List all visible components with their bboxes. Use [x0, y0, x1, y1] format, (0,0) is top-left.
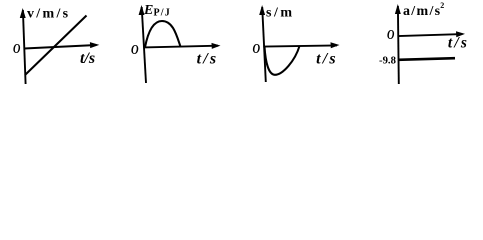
svg-text:s/m: s/m [266, 6, 295, 21]
svg-text:2: 2 [440, 1, 444, 10]
svg-text:v/m/s: v/m/s [27, 7, 70, 22]
svg-text:a/m/s: a/m/s [403, 4, 441, 19]
svg-text:E: E [143, 3, 153, 18]
svg-text:O: O [253, 42, 261, 57]
svg-text:O: O [13, 42, 20, 57]
svg-text:O: O [131, 43, 139, 58]
svg-text:t/s: t/s [197, 51, 219, 68]
svg-text:t/s: t/s [448, 34, 469, 51]
svg-text:P/J: P/J [154, 8, 172, 19]
svg-text:O: O [387, 28, 394, 43]
svg-text:-9.8: -9.8 [379, 55, 396, 67]
svg-text:t/s: t/s [80, 50, 95, 67]
svg-text:t/s: t/s [316, 51, 338, 68]
